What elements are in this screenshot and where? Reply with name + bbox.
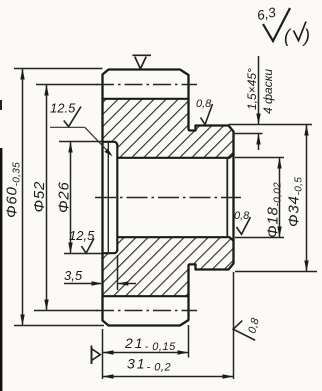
roughness check lower — [81, 239, 94, 254]
axis centerline — [95, 197, 241, 199]
svg-text:12.5: 12.5 — [50, 101, 76, 116]
svg-text:4 фаски: 4 фаски — [261, 69, 275, 114]
extension line D52 bottom — [34, 310, 98, 312]
label D34-0.5 — [286, 177, 305, 227]
svg-text:0,8: 0,8 — [196, 98, 212, 110]
roughness check bore — [237, 217, 251, 234]
svg-text:0,8: 0,8 — [234, 210, 250, 222]
svg-text:1,5×45°: 1,5×45° — [245, 68, 259, 110]
svg-text:3,5: 3,5 — [64, 268, 83, 283]
leader shelf — [50, 126, 85, 128]
roughness check hub surface — [201, 104, 213, 125]
dimension D60 line — [22, 69, 24, 326]
dimension 21 line — [103, 352, 189, 354]
gear root line top — [103, 98, 189, 100]
label 1,5x45 — [245, 68, 259, 110]
roughness check upper — [64, 107, 81, 127]
roughness 0,8 right face rotated — [233, 321, 255, 341]
ext line D18 top — [235, 157, 284, 159]
dimension 3.5 line left part — [64, 283, 101, 285]
rim face ext line down — [188, 325, 190, 358]
small check in parens — [294, 22, 307, 41]
chamfer dimension line upper — [258, 56, 260, 124]
gear root line bottom — [103, 295, 189, 297]
extension line D60 top — [14, 68, 103, 70]
dimension 3.5 arrow right part — [119, 283, 137, 285]
counterbore D26 bottom surface — [103, 250, 118, 254]
label D60-0.35 — [4, 162, 23, 218]
svg-text:Φ52: Φ52 — [31, 181, 48, 213]
dimension 31 line — [103, 376, 234, 378]
hatched section area lower web — [103, 237, 234, 296]
leader to bore corner — [85, 127, 111, 154]
svg-text:Φ26: Φ26 — [56, 181, 73, 213]
pitch line top — [96, 84, 197, 86]
ext line D18 bottom — [235, 237, 284, 239]
label D52 — [31, 181, 48, 213]
svg-text:): ) — [302, 26, 310, 46]
label D18-0.02 — [265, 182, 284, 238]
extension line D26 top — [59, 141, 103, 143]
label D26 — [56, 181, 73, 213]
bore right chamfer edge — [226, 158, 228, 237]
right face ext line down — [233, 272, 235, 379]
datum flag — [91, 346, 93, 365]
scan edge artifact — [0, 148, 2, 391]
label 4 faski — [261, 69, 275, 114]
dimension D52 line — [46, 85, 48, 311]
dimension D26 line — [70, 142, 72, 254]
dimension D34 line — [306, 125, 308, 272]
extension line D60 bottom — [14, 325, 104, 327]
counterbore bottom face — [116, 144, 118, 251]
bore D18 bottom line — [117, 237, 233, 241]
pitch line bottom — [96, 310, 197, 312]
left face ext line down — [102, 329, 104, 379]
chamfer dimension line lower — [258, 134, 260, 151]
D26 entry chamfer edge — [107, 142, 109, 253]
main roughness check — [263, 8, 290, 41]
svg-text:12,5: 12,5 — [69, 228, 95, 243]
ext line D34 bottom — [235, 271, 317, 273]
hatched section area upper web — [103, 99, 234, 158]
extension line D26 bottom — [64, 253, 103, 255]
extension line D52 top — [36, 84, 98, 86]
counterbore ext line down — [117, 255, 119, 290]
finish triangle on OD — [132, 55, 151, 69]
chamfer ext line lower level — [234, 133, 263, 135]
counterbore D26 top surface — [103, 142, 118, 146]
bore D18 top line — [117, 154, 233, 158]
chamfer ext line hub top level — [229, 124, 313, 126]
dimension D18 line — [279, 158, 281, 238]
part outline — [103, 70, 234, 326]
surface mark 6,3 top right — [256, 4, 278, 23]
